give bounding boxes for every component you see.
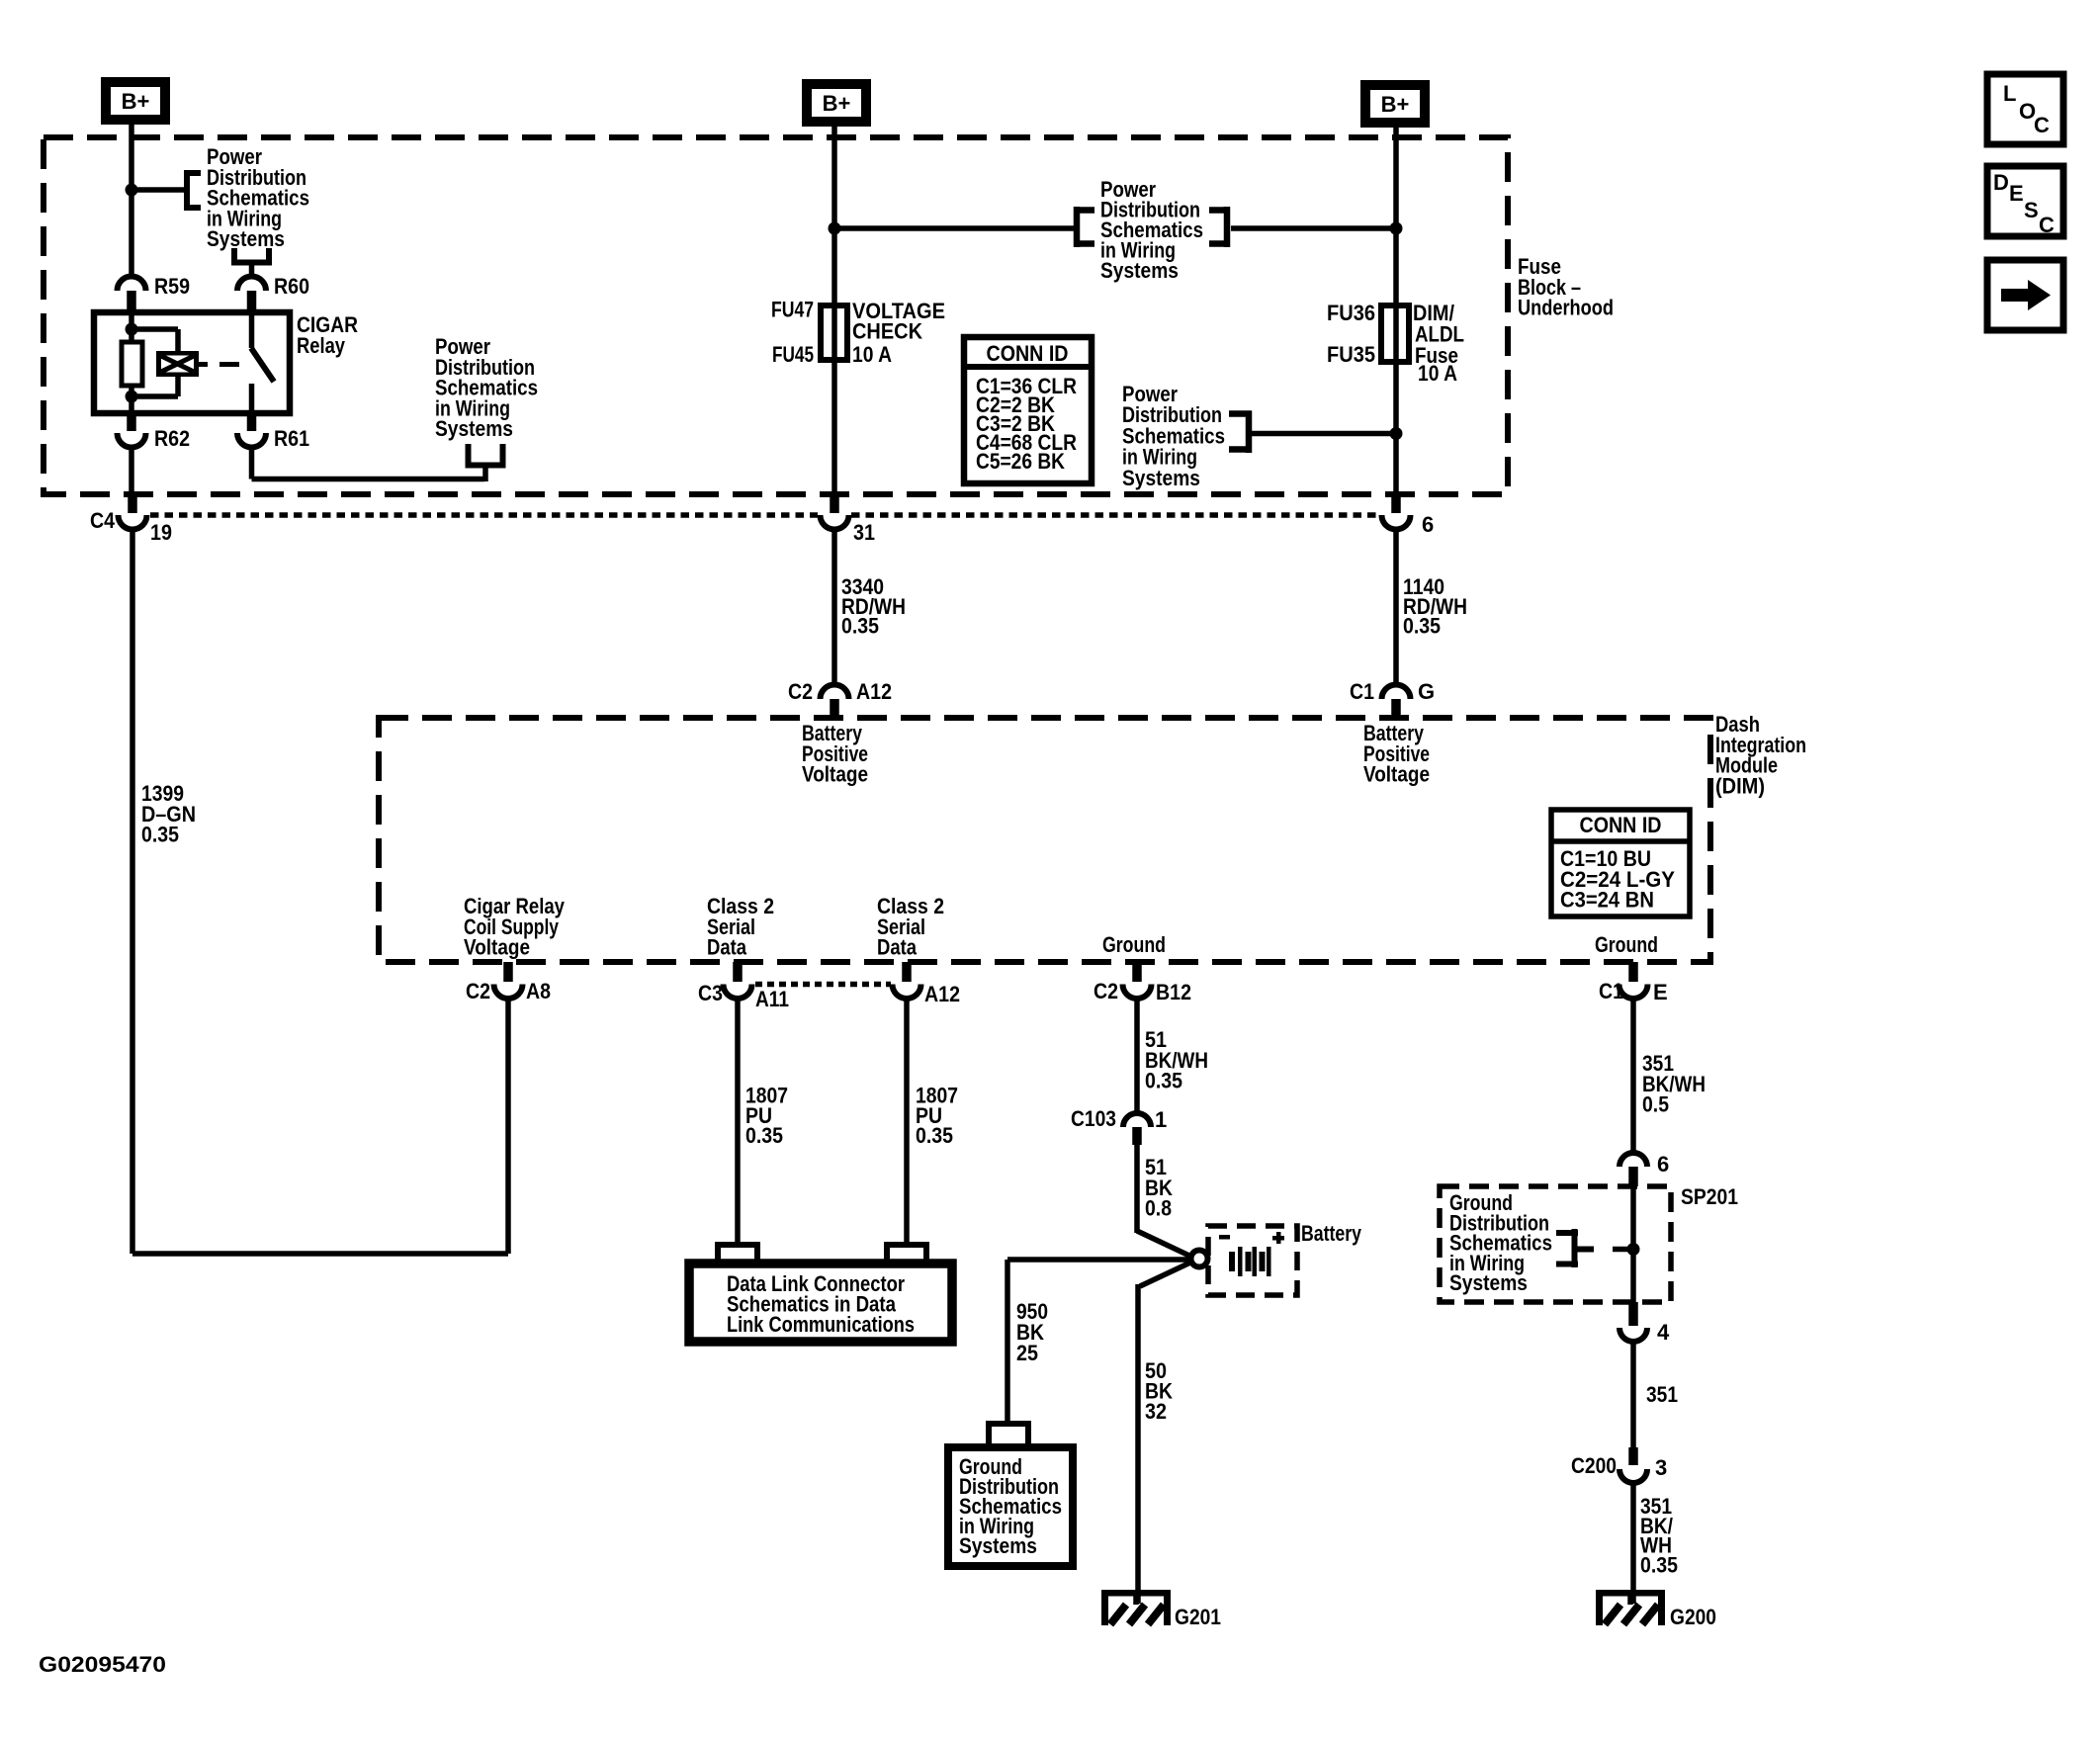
svg-text:31: 31 <box>853 520 875 545</box>
svg-text:C2: C2 <box>788 679 813 704</box>
svg-text:R61: R61 <box>274 426 309 451</box>
svg-text:0.35: 0.35 <box>916 1123 953 1148</box>
svg-text:Voltage: Voltage <box>802 762 868 787</box>
svg-text:C1: C1 <box>1599 979 1623 1003</box>
svg-text:FU36: FU36 <box>1327 301 1375 325</box>
svg-text:10 A: 10 A <box>1418 361 1457 386</box>
svg-text:Systems: Systems <box>435 416 513 441</box>
svg-text:S: S <box>2024 198 2039 222</box>
svg-text:C: C <box>2034 113 2050 137</box>
svg-text:CHECK: CHECK <box>852 319 922 344</box>
svg-text:Systems: Systems <box>959 1533 1037 1558</box>
svg-text:C3=24 BN: C3=24 BN <box>1560 888 1654 913</box>
svg-text:0.35: 0.35 <box>1403 614 1441 639</box>
svg-text:G: G <box>1418 679 1435 704</box>
svg-text:Ground: Ground <box>1102 932 1166 957</box>
svg-text:G201: G201 <box>1175 1605 1221 1629</box>
svg-text:FU35: FU35 <box>1327 342 1375 367</box>
svg-text:6: 6 <box>1657 1152 1669 1177</box>
svg-text:FU45: FU45 <box>772 342 814 367</box>
svg-text:Systems: Systems <box>1449 1270 1528 1295</box>
svg-text:E: E <box>2009 181 2024 206</box>
svg-text:R59: R59 <box>154 274 190 299</box>
svg-text:Systems: Systems <box>1122 466 1200 490</box>
svg-text:3: 3 <box>1655 1455 1667 1480</box>
svg-text:L: L <box>2003 81 2016 106</box>
svg-text:D: D <box>1993 170 2009 195</box>
svg-text:C103: C103 <box>1071 1106 1116 1131</box>
svg-text:0.35: 0.35 <box>745 1123 783 1148</box>
svg-text:C2: C2 <box>1094 979 1118 1003</box>
svg-text:B+: B+ <box>1381 92 1410 117</box>
svg-text:CONN ID: CONN ID <box>1580 813 1662 837</box>
svg-text:B+: B+ <box>122 89 150 114</box>
svg-text:A12: A12 <box>924 982 960 1006</box>
svg-text:Systems: Systems <box>1100 258 1179 283</box>
svg-text:C200: C200 <box>1571 1453 1617 1478</box>
svg-text:C: C <box>2039 213 2055 237</box>
svg-text:Voltage: Voltage <box>464 935 530 960</box>
svg-text:E: E <box>1653 980 1668 1004</box>
svg-text:10 A: 10 A <box>852 342 892 367</box>
svg-text:Data: Data <box>707 935 747 960</box>
svg-text:Underhood: Underhood <box>1518 296 1614 320</box>
svg-text:Ground: Ground <box>1595 932 1658 957</box>
svg-text:6: 6 <box>1422 512 1434 537</box>
svg-text:Voltage: Voltage <box>1363 762 1430 787</box>
svg-text:Systems: Systems <box>207 226 285 251</box>
svg-text:C3: C3 <box>698 981 723 1005</box>
svg-text:0.35: 0.35 <box>141 823 179 847</box>
svg-text:G02095470: G02095470 <box>39 1652 166 1677</box>
svg-text:351: 351 <box>1646 1382 1678 1407</box>
svg-text:SP201: SP201 <box>1681 1184 1738 1209</box>
svg-text:A11: A11 <box>755 987 789 1011</box>
svg-text:B+: B+ <box>823 91 851 116</box>
svg-text:C1: C1 <box>1350 679 1374 704</box>
svg-text:R62: R62 <box>154 426 190 451</box>
svg-text:C4: C4 <box>90 508 116 533</box>
svg-text:19: 19 <box>150 520 172 545</box>
svg-text:32: 32 <box>1145 1399 1167 1424</box>
svg-text:Link Communications: Link Communications <box>727 1312 915 1337</box>
svg-text:Data: Data <box>877 935 918 960</box>
svg-text:0.8: 0.8 <box>1145 1196 1172 1221</box>
svg-text:C2: C2 <box>466 979 490 1003</box>
svg-text:4: 4 <box>1657 1320 1670 1345</box>
svg-text:C5=26 BK: C5=26 BK <box>976 449 1065 474</box>
svg-text:1: 1 <box>1155 1107 1167 1132</box>
svg-text:R60: R60 <box>274 274 309 299</box>
svg-text:CONN ID: CONN ID <box>987 341 1069 366</box>
svg-text:Relay: Relay <box>297 333 346 358</box>
svg-text:0.35: 0.35 <box>1145 1069 1182 1093</box>
svg-text:0.35: 0.35 <box>841 614 879 639</box>
svg-text:B12: B12 <box>1156 980 1191 1004</box>
svg-text:(DIM): (DIM) <box>1715 773 1765 798</box>
svg-text:Battery: Battery <box>1301 1221 1362 1246</box>
svg-text:G200: G200 <box>1670 1605 1716 1629</box>
svg-text:0.5: 0.5 <box>1642 1092 1669 1117</box>
svg-text:FU47: FU47 <box>771 298 814 322</box>
svg-text:0.35: 0.35 <box>1640 1552 1678 1577</box>
svg-text:A12: A12 <box>856 679 892 704</box>
svg-text:25: 25 <box>1016 1341 1038 1365</box>
svg-text:A8: A8 <box>526 979 551 1003</box>
